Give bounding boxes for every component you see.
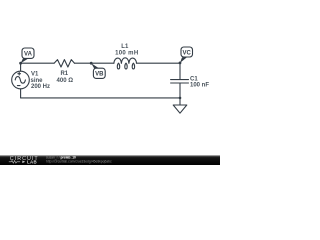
svg-text:V1: V1 [31, 72, 39, 78]
svg-text:VC: VC [183, 51, 192, 57]
svg-text:200 Hz: 200 Hz [31, 84, 50, 90]
svg-text:100 mH: 100 mH [115, 51, 138, 57]
svg-text:R1: R1 [60, 71, 68, 77]
svg-text:http://circuitlab.com/c/ue33ed: http://circuitlab.com/c/ue33edgr45e8kpq6… [46, 159, 112, 163]
svg-text:100 nF: 100 nF [190, 82, 209, 88]
svg-text:L1: L1 [121, 44, 129, 50]
svg-text:LAB: LAB [27, 159, 37, 164]
svg-text:VB: VB [95, 72, 104, 78]
svg-text:VA: VA [24, 52, 33, 58]
svg-text:400 Ω: 400 Ω [57, 78, 74, 84]
svg-text:sine: sine [31, 78, 44, 84]
